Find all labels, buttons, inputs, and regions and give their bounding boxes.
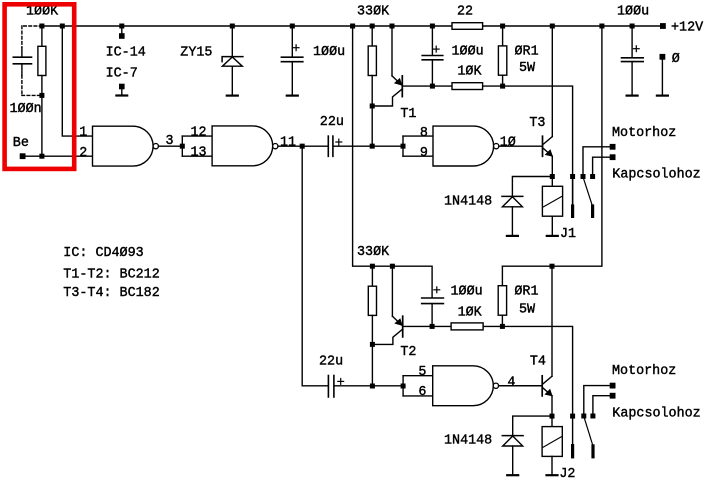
wire Motorhoz bottom: [584, 386, 613, 416]
resistor R 10K lower: [451, 323, 483, 330]
svg-text:1ØØu: 1ØØu: [451, 284, 483, 299]
svg-text:5: 5: [418, 365, 426, 380]
svg-text:IC-7: IC-7: [106, 67, 138, 82]
svg-text:1: 1: [79, 126, 87, 141]
diode D 1N4148 lower: [502, 416, 552, 475]
resistor R 22: [452, 23, 483, 30]
svg-text:1ØØK: 1ØØK: [26, 5, 59, 20]
svg-text:T1-T2: BC212: T1-T2: BC212: [63, 267, 159, 282]
transistor Q T1 BC212: [372, 26, 432, 106]
resistor R 0R1 5W: [498, 26, 506, 86]
nand gate U1C out 10: [433, 126, 543, 166]
svg-text:IC: CD4Ø93: IC: CD4Ø93: [63, 246, 143, 261]
svg-text:T3-T4: BC182: T3-T4: BC182: [63, 286, 159, 301]
terminal 0 ground: [657, 54, 668, 96]
wire node down to lower section: [302, 146, 328, 386]
nand gate U1B out 4: [433, 366, 542, 406]
transistor Q T3 BC182: [543, 136, 554, 176]
wire Be to gate pin 2: [23, 155, 93, 157]
terminal +12V: [660, 23, 666, 29]
svg-text:T3: T3: [529, 116, 545, 131]
capacitor C 100n: [13, 48, 31, 76]
svg-text:T2: T2: [400, 345, 416, 360]
svg-text:ØR1: ØR1: [515, 45, 539, 60]
capacitor C 100u first: [281, 26, 302, 96]
wire 22u to gate U1C input node: [333, 145, 403, 147]
svg-text:6: 6: [418, 385, 426, 400]
nand gate U1A pins 1 2 out 3: [93, 126, 183, 166]
svg-text:+12V: +12V: [671, 20, 703, 35]
svg-text:J1: J1: [560, 227, 576, 242]
svg-text:ZY15: ZY15: [180, 45, 212, 60]
svg-text:22u: 22u: [320, 115, 344, 130]
red highlight box: [5, 4, 75, 169]
terminal Kapcsolohoz top: [610, 154, 616, 160]
nand gate U1D out 11: [212, 126, 328, 166]
svg-text:1Ø: 1Ø: [500, 136, 516, 151]
svg-text:3: 3: [166, 134, 174, 149]
transistor Q T2 BC212: [372, 266, 432, 344]
svg-text:5W: 5W: [519, 303, 536, 318]
svg-text:T1: T1: [400, 107, 416, 122]
wire right vertical to lower oscillator: [502, 26, 602, 266]
wire 22u lower to gate U1B node: [334, 385, 403, 387]
resistor R 100K: [38, 26, 46, 156]
transistor Q T4 BC182: [542, 376, 553, 416]
relay J2 coil: [542, 416, 562, 475]
svg-text:5W: 5W: [519, 61, 536, 76]
wire Motorhoz top: [583, 147, 613, 177]
capacitor C 100u second: [422, 26, 443, 86]
wire gate U1B pins 5 6: [403, 376, 433, 396]
svg-text:Kapcsolohoz: Kapcsolohoz: [612, 407, 700, 422]
wire base line 10K row: [432, 86, 572, 206]
svg-text:1ØK: 1ØK: [457, 65, 482, 80]
svg-text:22u: 22u: [319, 354, 343, 369]
relay J2 fixed contact: [571, 446, 574, 457]
diode D 1N4148 first: [502, 177, 552, 236]
svg-text:8: 8: [420, 126, 428, 141]
svg-text:4: 4: [507, 375, 515, 390]
wire 100u top right column: [631, 26, 633, 58]
svg-text:Motorhoz: Motorhoz: [612, 126, 676, 141]
svg-text:1N4148: 1N4148: [444, 434, 492, 449]
svg-text:9: 9: [420, 146, 428, 161]
transistor Q T4 BC182 collector wire: [551, 266, 553, 376]
svg-text:Kapcsolohoz: Kapcsolohoz: [612, 167, 700, 182]
relay J1 fixed contact: [572, 177, 574, 217]
wire Kapcsolohoz top: [593, 157, 613, 176]
svg-text:2: 2: [79, 146, 87, 161]
svg-text:33ØK: 33ØK: [357, 5, 390, 20]
svg-text:Be: Be: [13, 136, 29, 151]
svg-text:1ØØu: 1ØØu: [452, 44, 484, 59]
svg-text:22: 22: [457, 5, 473, 20]
svg-text:T4: T4: [530, 354, 546, 369]
svg-text:ØR1: ØR1: [514, 285, 538, 300]
terminal Be: [20, 153, 26, 159]
terminal Motorhoz top: [610, 144, 616, 150]
svg-text:1ØØu: 1ØØu: [617, 5, 649, 20]
wire +12V rail: [42, 25, 663, 27]
wire 330K to node: [371, 76, 373, 147]
wire middle vertical to lower 330K row: [353, 26, 433, 298]
wire lower base line: [432, 326, 572, 445]
resistor R 10K: [452, 83, 483, 90]
svg-text:12: 12: [191, 126, 207, 141]
wire gate U1C pins 8 9: [403, 136, 433, 156]
svg-text:IC-14: IC-14: [106, 45, 146, 60]
svg-text:1ØØn: 1ØØn: [10, 102, 42, 117]
capacitor 100n dashed branch: [22, 26, 42, 95]
svg-text:1ØØu: 1ØØu: [313, 45, 345, 60]
transistor Q T3 BC182 collector wire: [551, 26, 553, 137]
ground IC-7 pin: [116, 84, 127, 96]
wire 330K column top: [371, 26, 373, 46]
capacitor C 22u lower: [328, 376, 343, 398]
resistor R 0R1 lower: [498, 266, 506, 326]
wire to gate U1D pins 12 13: [182, 136, 212, 156]
capacitor C 22u first: [328, 136, 341, 156]
svg-text:1ØK: 1ØK: [458, 306, 483, 321]
capacitor C 100u lower: [422, 287, 444, 327]
terminal IC-14 supply stub: [119, 26, 125, 39]
relay J2 moving contact lever: [584, 417, 593, 457]
svg-text:11: 11: [280, 136, 296, 151]
svg-text:33ØK: 33ØK: [357, 245, 390, 260]
svg-text:13: 13: [191, 145, 207, 160]
resistor R 330K lower: [368, 266, 376, 386]
svg-text:J2: J2: [559, 467, 575, 482]
svg-text:Motorhoz: Motorhoz: [612, 364, 676, 379]
wire Kapcsolohoz bottom: [593, 396, 613, 416]
terminal Motorhoz bottom: [610, 383, 616, 389]
svg-text:Ø: Ø: [672, 52, 680, 67]
resistor R 330K: [368, 46, 376, 76]
wire rail to gate pin 1: [62, 26, 92, 136]
relay J1 coil: [542, 177, 562, 236]
svg-text:1N4148: 1N4148: [444, 195, 492, 210]
capacitor C 100u right: [622, 46, 644, 96]
diode ZY15 zener: [222, 26, 243, 96]
relay J1 moving contact lever: [583, 178, 592, 217]
terminal Kapcsolohoz bottom: [610, 393, 616, 399]
